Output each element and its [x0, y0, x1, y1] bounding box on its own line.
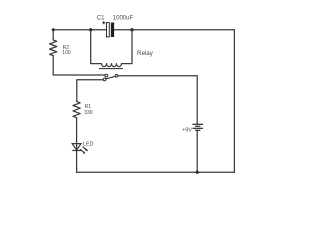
svg-text:100: 100 — [62, 50, 71, 56]
svg-text:+9V: +9V — [182, 128, 192, 134]
wire R1 to LED — [76, 118, 78, 150]
svg-text:330: 330 — [84, 110, 93, 116]
wire top rail left — [53, 29, 106, 31]
svg-text:LED: LED — [83, 141, 94, 147]
wire battery to bottom rail — [196, 130, 198, 172]
wire top rail right — [114, 29, 234, 31]
relay core — [99, 68, 122, 70]
relay coil — [91, 30, 132, 67]
svg-text:1000uF: 1000uF — [113, 15, 134, 21]
svg-text:Relay: Relay — [137, 50, 154, 57]
wire bottom rail — [77, 171, 235, 173]
LED arrowheads — [83, 149, 88, 154]
wire armature common to R1 — [77, 80, 104, 102]
relay contact NO — [115, 74, 118, 77]
capacitor C1 — [102, 21, 114, 37]
relay contact common — [103, 78, 106, 81]
node battery bottom junction — [196, 171, 199, 174]
node coil left junction — [89, 28, 92, 31]
node coil right junction — [130, 28, 133, 31]
svg-text:C1: C1 — [97, 15, 105, 21]
resistor R1 — [73, 101, 80, 117]
wire NO contact to battery — [118, 76, 197, 124]
LED — [72, 144, 86, 153]
relay armature — [106, 76, 115, 79]
wire LED to bottom rail — [76, 151, 78, 173]
wire R2 to NC contact — [53, 56, 105, 75]
relay contact NC — [105, 74, 108, 77]
node top-left corner — [52, 28, 55, 31]
battery +9V — [192, 124, 203, 130]
wire right side — [233, 30, 235, 173]
resistor R2 — [50, 30, 57, 56]
